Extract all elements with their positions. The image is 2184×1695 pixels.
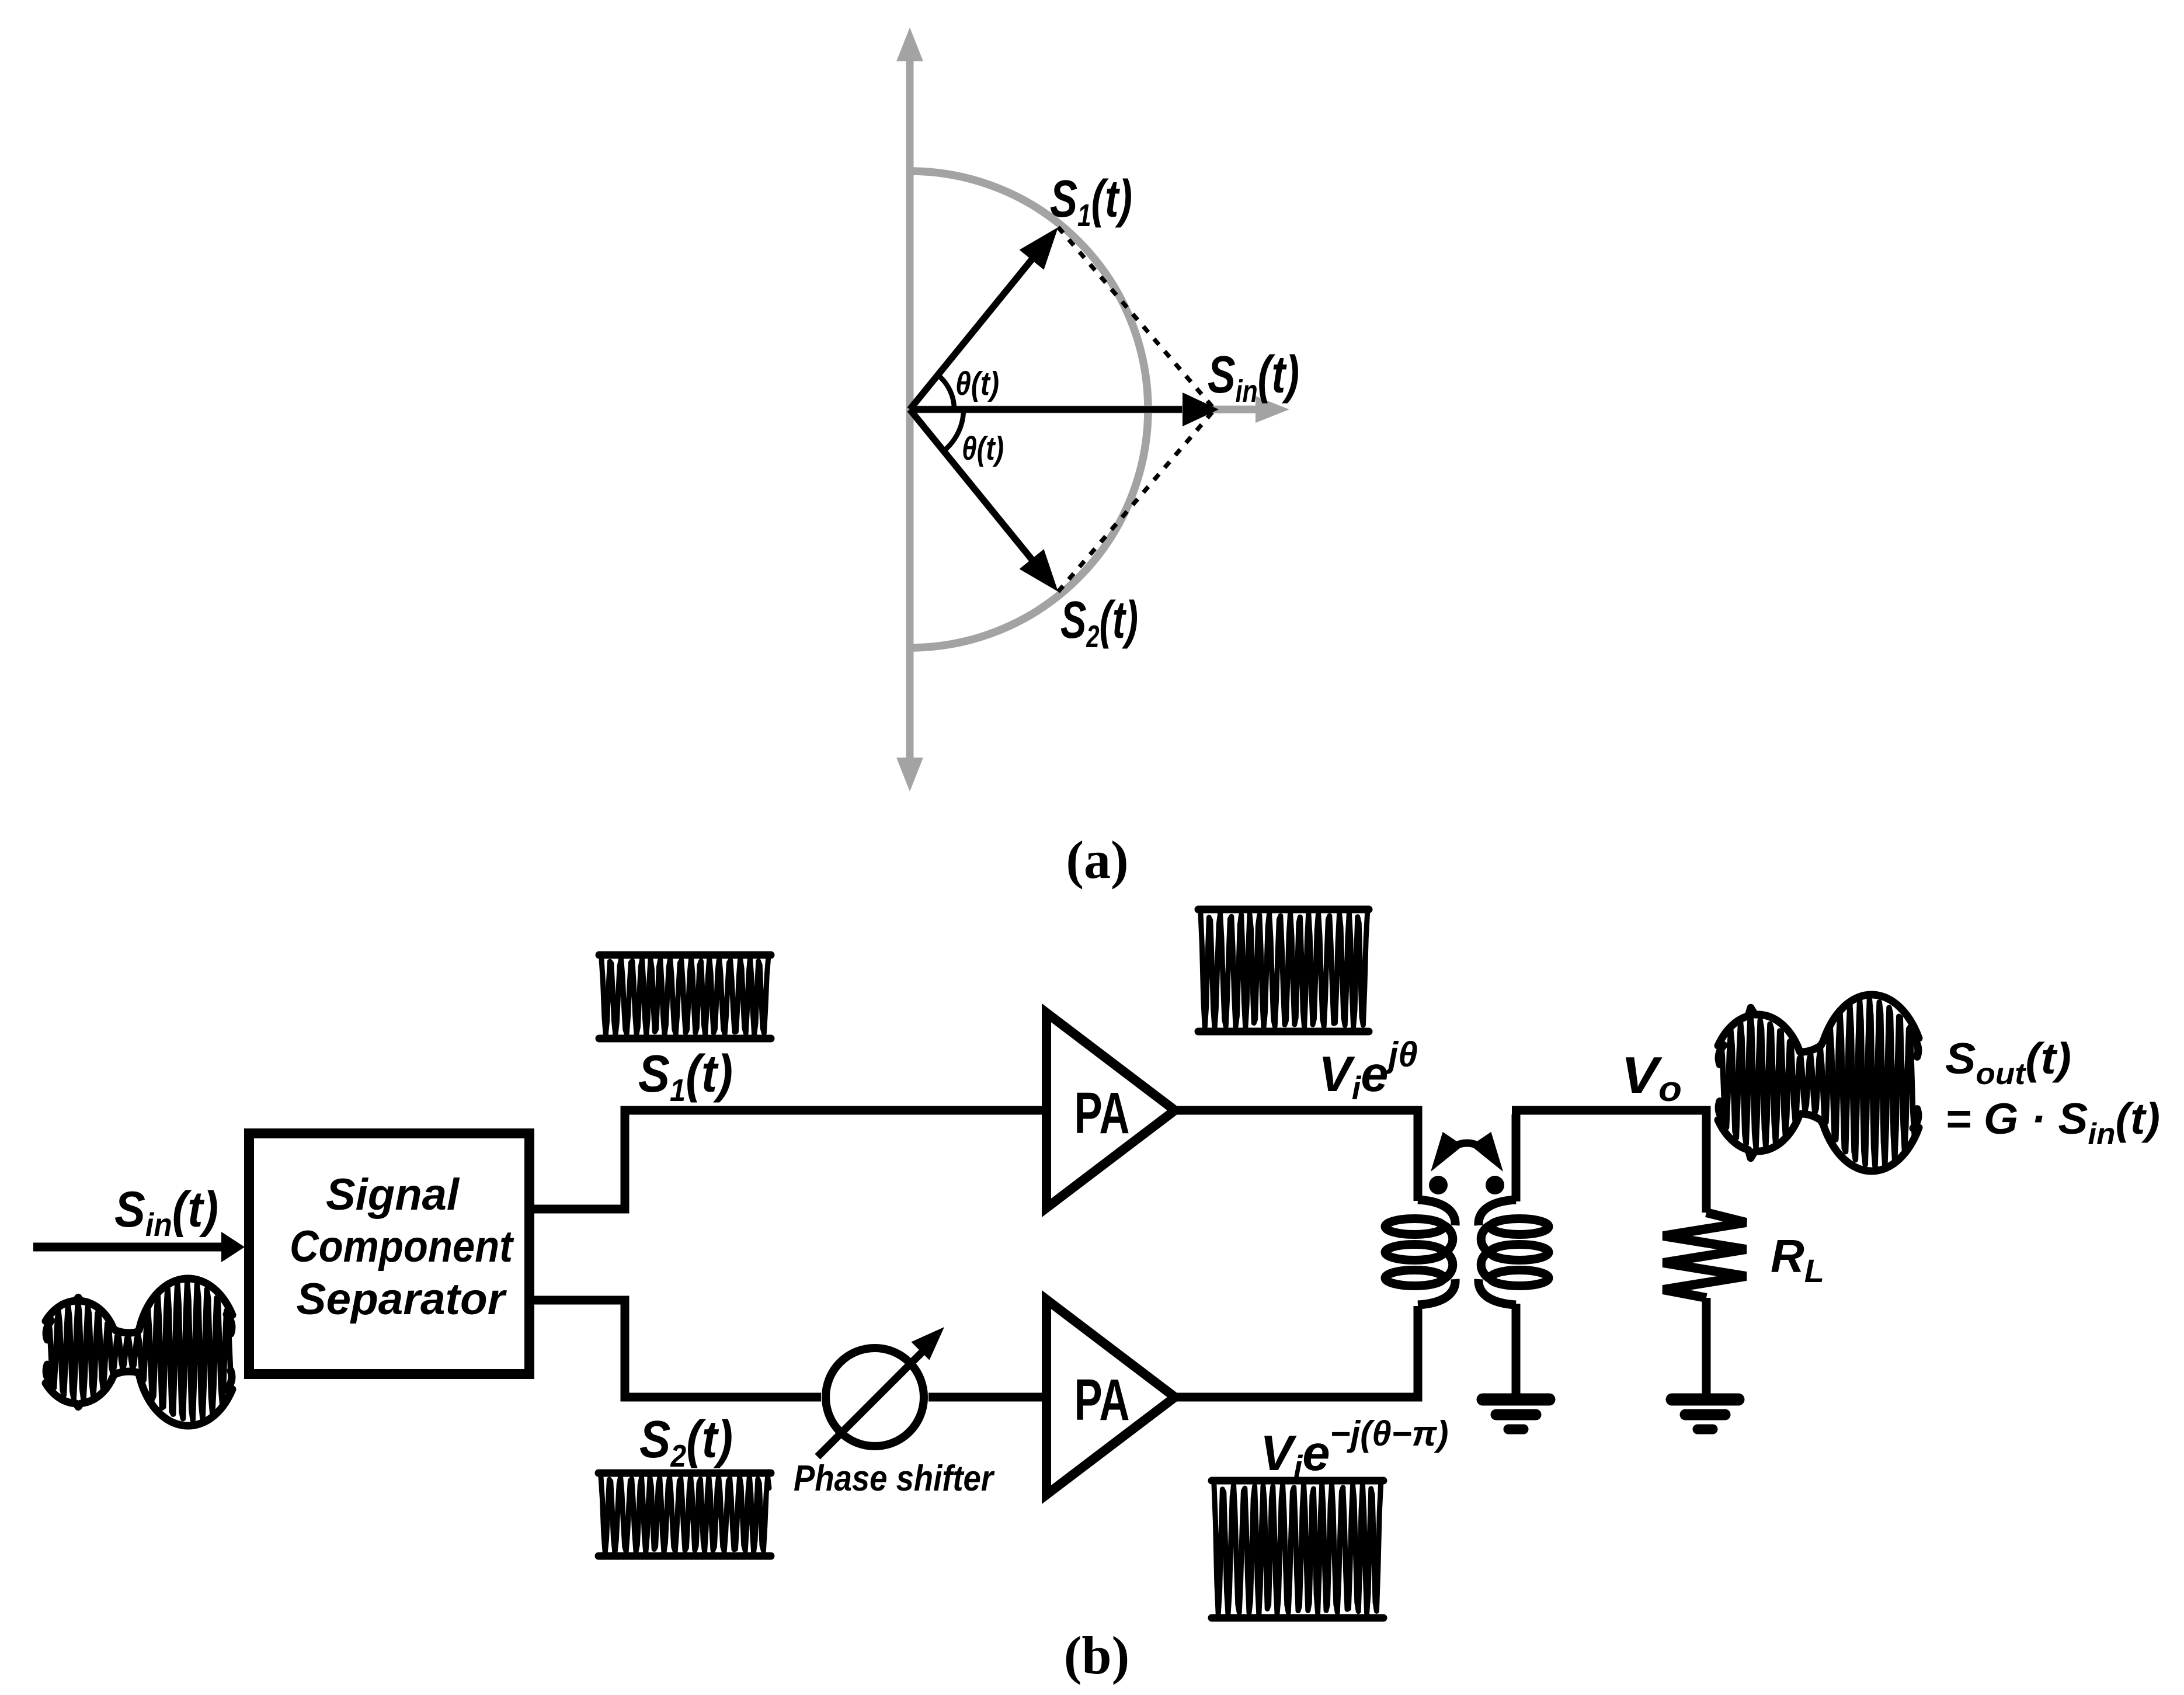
svg-text:θ(t): θ(t) bbox=[955, 365, 999, 402]
svg-text:S2(t): S2(t) bbox=[1060, 591, 1138, 654]
svg-text:S2(t): S2(t) bbox=[639, 1411, 733, 1474]
svg-text:(a): (a) bbox=[1066, 830, 1128, 890]
svg-text:S1(t): S1(t) bbox=[638, 1045, 733, 1108]
svg-text:(b): (b) bbox=[1064, 1625, 1129, 1685]
svg-text:Signal: Signal bbox=[326, 1170, 460, 1220]
svg-text:= G · Sin(t): = G · Sin(t) bbox=[1945, 1094, 2160, 1151]
svg-text:Phase shifter: Phase shifter bbox=[794, 1458, 995, 1499]
svg-text:PA: PA bbox=[1074, 1367, 1130, 1433]
svg-text:θ(t): θ(t) bbox=[962, 430, 1004, 467]
svg-text:Separator: Separator bbox=[297, 1274, 507, 1324]
svg-text:Component: Component bbox=[290, 1222, 514, 1272]
svg-text:PA: PA bbox=[1074, 1081, 1130, 1146]
svg-text:S1(t): S1(t) bbox=[1050, 170, 1132, 233]
